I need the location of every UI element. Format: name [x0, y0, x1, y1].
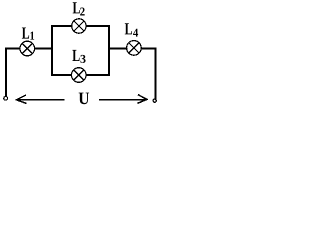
lamp L1 [20, 41, 35, 56]
lamp L4 [127, 41, 142, 56]
wire from L1 to parallel box left edge [35, 47, 53, 49]
label L3 [72, 50, 85, 63]
wire bottom branch right segment [86, 74, 110, 76]
wire top branch right segment [86, 25, 110, 27]
wire from L4 to right corner [141, 47, 155, 49]
wire parallel box right vertical edge [108, 25, 110, 76]
wire right vertical down to terminal [155, 48, 157, 99]
lamp L3 [72, 68, 87, 83]
arrow U right [99, 95, 147, 104]
label L2 [73, 2, 85, 15]
arrow U left [16, 95, 64, 104]
label L1 [22, 27, 34, 39]
wire left horizontal from left corner to lamp L1 [5, 47, 20, 49]
wire from box right edge to lamp L4 [108, 47, 127, 49]
wire parallel box left vertical edge [51, 25, 53, 76]
label L4 [125, 23, 138, 36]
terminal left [4, 96, 8, 100]
terminal right [153, 99, 156, 102]
lamp L2 [72, 19, 86, 33]
wire left vertical down to terminal [5, 48, 7, 97]
wire top branch left segment [51, 25, 72, 27]
label U [79, 93, 89, 105]
wire bottom branch left segment [51, 74, 72, 76]
